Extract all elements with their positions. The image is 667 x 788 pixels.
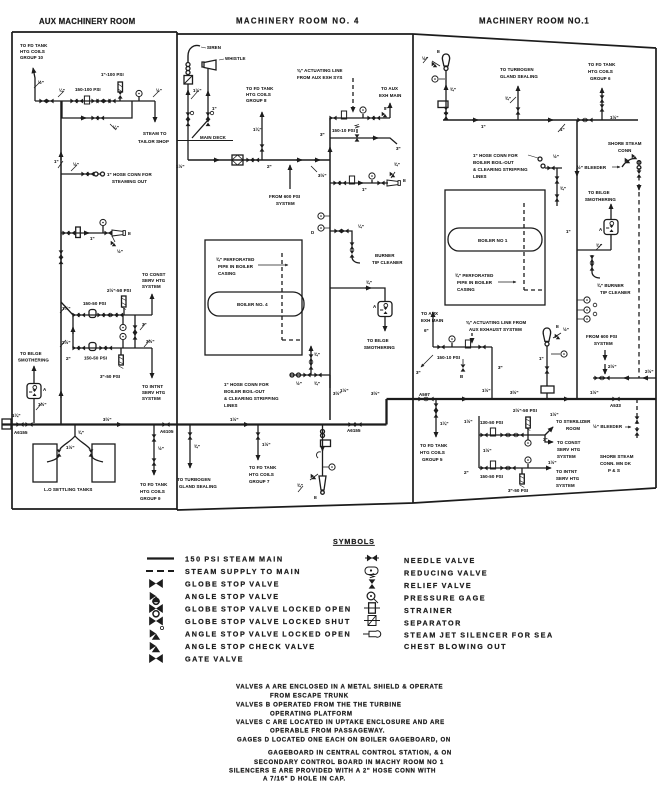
svg-text:GLAND SEALING: GLAND SEALING [500, 74, 538, 79]
reducing header 2 y=348 [73, 347, 152, 349]
svg-text:CASING: CASING [457, 287, 475, 292]
relief valve hatched below [119, 348, 124, 369]
svg-text:2": 2" [267, 164, 272, 169]
svg-text:VALVES B OPERATED FROM THE THE: VALVES B OPERATED FROM THE THE TURBINE [236, 702, 402, 709]
hose conn circles [94, 172, 98, 176]
svg-text:1½": 1½" [262, 442, 271, 447]
svg-text:BOILER BOIL-OUT: BOILER BOIL-OUT [473, 160, 514, 165]
svg-text:¾": ¾" [314, 381, 320, 386]
pressure gage below [120, 315, 126, 331]
valve [152, 434, 157, 441]
globe valve [246, 158, 253, 163]
strainer [465, 340, 470, 348]
globe valve [478, 345, 485, 350]
arrow on main [243, 424, 249, 426]
svg-text:CONN: CONN [618, 148, 631, 153]
svg-text:SYSTEM: SYSTEM [594, 341, 613, 346]
svg-text:BURNER: BURNER [375, 253, 395, 258]
svg-text:1½": 1½" [66, 445, 75, 450]
arrows on header [213, 159, 219, 161]
leader arrow [498, 281, 516, 283]
svg-text:150-10 PSI: 150-10 PSI [332, 128, 355, 133]
column down [556, 168, 558, 206]
svg-text:GLAND SEALING: GLAND SEALING [179, 484, 217, 489]
svg-text:1": 1" [539, 356, 544, 361]
600psi arrows [604, 350, 606, 360]
pipe: step up [385, 399, 387, 425]
pipe: box to main [33, 399, 35, 424]
boiler no.1 shell [448, 228, 542, 251]
hose conn header y=375 [290, 375, 330, 388]
tick on header [558, 124, 565, 132]
pressure gage [323, 464, 336, 470]
globe valve [500, 433, 507, 438]
svg-text:GROUP 9: GROUP 9 [140, 496, 161, 501]
pressure gage [432, 76, 445, 82]
angle valve [310, 474, 318, 480]
svg-text:TO CONST: TO CONST [142, 272, 166, 277]
bottom strip of left+middle panels [2, 399, 656, 501]
svg-text:B: B [460, 374, 463, 379]
pipe: 150-10 station header [433, 346, 492, 348]
svg-text:SILENCERS E ARE PROVIDED WITH: SILENCERS E ARE PROVIDED WITH A 2" HOSE … [229, 768, 436, 775]
gate valve [16, 422, 23, 427]
globe valve [508, 466, 515, 471]
svg-text:AUX EXHAUST SYSTEM: AUX EXHAUST SYSTEM [469, 327, 522, 332]
valve box A [27, 384, 41, 399]
svg-text:HTG COILS: HTG COILS [588, 69, 613, 74]
pipe: riser x=330 [329, 118, 331, 420]
svg-text:SYSTEM: SYSTEM [556, 483, 575, 488]
svg-text:BOILER NO 1: BOILER NO 1 [478, 238, 508, 243]
svg-text:2": 2" [464, 470, 469, 475]
from 600 psi arrow [289, 165, 291, 189]
globe valve pair [62, 231, 69, 236]
legend: angle stop check valve [150, 642, 160, 652]
pipe: drop x=492 [491, 347, 493, 399]
arrows up column [445, 85, 447, 90]
svg-text:TO INTNT: TO INTNT [556, 469, 577, 474]
svg-text:TO FD TANK: TO FD TANK [249, 465, 277, 470]
strainer on header [232, 155, 243, 165]
svg-text:A6155: A6155 [14, 430, 28, 435]
svg-text:1½": 1½" [550, 412, 559, 417]
pipe: main header y=120 [443, 119, 638, 121]
strainer [349, 176, 354, 184]
valve [555, 194, 560, 201]
tick [510, 97, 516, 103]
arrow [358, 182, 363, 184]
svg-text:3½": 3½" [318, 173, 327, 178]
svg-text:2½"-50 PSI: 2½"-50 PSI [107, 288, 131, 293]
arrow [365, 287, 371, 289]
svg-text:OPERATING PLATFORM: OPERATING PLATFORM [270, 711, 353, 718]
svg-text:SYSTEM: SYSTEM [557, 454, 576, 459]
gate valve A533 [612, 397, 619, 402]
pipe: separator branch y=183 [330, 182, 388, 184]
pipe: 150 psi steam main (right run) [387, 398, 657, 400]
svg-text:¾": ¾" [394, 162, 400, 167]
svg-text:REDUCING VALVE: REDUCING VALVE [404, 569, 488, 578]
pipe: 150-10 psi station header [330, 117, 390, 119]
silencer E stack mid panel [322, 425, 324, 477]
legend: needle valve [365, 555, 379, 562]
svg-text:½": ½" [38, 80, 44, 85]
svg-text:HTG COILS: HTG COILS [420, 450, 445, 455]
svg-text:1½": 1½" [230, 417, 239, 422]
arrow up [310, 346, 312, 352]
svg-text:1" HOSE CONN FOR: 1" HOSE CONN FOR [473, 153, 518, 158]
angle valve at silencer [432, 61, 440, 67]
svg-text:TO TURBOGEN: TO TURBOGEN [177, 477, 211, 482]
drop turbogen [189, 425, 191, 469]
gate valve A6105 [162, 422, 169, 427]
svg-text:1¼": 1¼" [12, 413, 21, 418]
svg-text:HTG COILS: HTG COILS [246, 92, 271, 97]
drop group 9 [153, 425, 155, 476]
border: aux machinery room panel [12, 32, 177, 509]
siren pipe [188, 45, 200, 62]
shore steam angle valves [622, 154, 637, 167]
svg-text:A6155: A6155 [347, 428, 361, 433]
svg-text:TO FD TANK: TO FD TANK [420, 443, 448, 448]
svg-text:MAIN DECK: MAIN DECK [200, 135, 227, 140]
valve pair on link [133, 325, 138, 332]
hose conn circles [290, 373, 294, 377]
svg-text:1": 1" [362, 187, 367, 192]
svg-text:& CLEARING STRIPPING: & CLEARING STRIPPING [224, 396, 279, 401]
svg-text:ANGLE STOP VALVE LOCKED OPEN: ANGLE STOP VALVE LOCKED OPEN [185, 630, 351, 639]
svg-text:1": 1" [90, 236, 95, 241]
svg-text:STEAMING OUT: STEAMING OUT [112, 179, 147, 184]
burner tip cleaner branch [330, 231, 352, 248]
pipe: box A to header y=250 [577, 235, 611, 250]
svg-text:FROM 600 PSI: FROM 600 PSI [269, 194, 300, 199]
arrow on main [116, 424, 122, 426]
pipe: steaming out branch [61, 173, 82, 175]
arrow down to bilge [384, 317, 386, 331]
svg-text:TO BILGE: TO BILGE [20, 351, 42, 356]
L.O. settling tank 2 [92, 444, 115, 482]
globe valve [333, 181, 340, 186]
legend: gate valve [149, 654, 163, 663]
tick [311, 166, 317, 172]
svg-text:TO TURBOGEN: TO TURBOGEN [500, 67, 534, 72]
legend: strainer [364, 603, 380, 613]
angle valve at E2 [553, 333, 561, 339]
svg-text:½": ½" [563, 327, 569, 332]
D gages [318, 213, 330, 231]
svg-text:GATE VALVE: GATE VALVE [185, 655, 244, 664]
svg-text:150-50 PSI: 150-50 PSI [84, 356, 107, 361]
svg-text:3½": 3½" [371, 391, 380, 396]
svg-text:1": 1" [54, 159, 59, 164]
svg-text:SYMBOLS: SYMBOLS [333, 537, 375, 546]
svg-text:1"-100 PSI: 1"-100 PSI [101, 72, 124, 77]
strainer [490, 428, 495, 436]
svg-text:A: A [599, 227, 603, 232]
svg-text:STEAM SUPPLY TO MAIN: STEAM SUPPLY TO MAIN [185, 567, 301, 576]
svg-text:GAGEBOARD IN CENTRAL CONTROL S: GAGEBOARD IN CENTRAL CONTROL STATION, & … [268, 750, 452, 757]
svg-text:L.O SETTLING TANKS: L.O SETTLING TANKS [44, 487, 92, 492]
valve below shore conn [637, 161, 641, 165]
arrow up to bilge [610, 204, 612, 219]
pipe: E2 column [546, 346, 548, 386]
pipe: main riser x=61 [60, 101, 62, 424]
border: machinery room no.1 panel [413, 34, 656, 503]
boiler no.4 shell [208, 292, 304, 316]
drop to intnt serv [151, 348, 153, 378]
separator rect [541, 386, 554, 393]
hose conn header [545, 167, 562, 169]
valve to tank 2 [89, 449, 94, 456]
svg-text:GLOBE STOP VALVE: GLOBE STOP VALVE [185, 580, 280, 589]
svg-text:MACHINERY ROOM NO.1: MACHINERY ROOM NO.1 [479, 17, 590, 26]
valve pair on riser [59, 250, 64, 257]
svg-text:FROM ESCAPE TRUNK: FROM ESCAPE TRUNK [270, 693, 349, 700]
svg-text:GAGES D LOCATED ONE EACH ON BO: GAGES D LOCATED ONE EACH ON BOILER GAGEB… [237, 737, 451, 744]
relief valve hatched [122, 296, 127, 315]
svg-text:TO STERILIZER: TO STERILIZER [556, 419, 591, 424]
svg-text:2½": 2½" [608, 364, 617, 369]
pressure gage [136, 90, 142, 101]
svg-text:¾": ¾" [450, 87, 456, 92]
pipe: station2 header y=468 [479, 467, 545, 469]
lo tank feed [60, 425, 90, 450]
svg-text:½": ½" [553, 154, 559, 159]
svg-text:¾": ¾" [314, 352, 320, 357]
pressure gage above [525, 457, 531, 468]
reducing header 1 y=315 [73, 314, 152, 316]
svg-text:⅜" ACTUATING LINE FROM: ⅜" ACTUATING LINE FROM [466, 320, 527, 325]
globe valve [303, 373, 310, 378]
svg-text:STRAINER: STRAINER [404, 606, 453, 615]
angle valve vent [390, 172, 396, 178]
svg-text:P & S: P & S [608, 468, 620, 473]
svg-text:⅜" ACTUATING LINE: ⅜" ACTUATING LINE [297, 68, 343, 73]
svg-text:E: E [314, 495, 317, 500]
globe valves [99, 346, 106, 351]
svg-text:150-10 PSI: 150-10 PSI [437, 355, 460, 360]
deck line [177, 140, 233, 142]
svg-text:EXH MAIN: EXH MAIN [379, 93, 401, 98]
pipe: station1 header y=435 [479, 434, 545, 436]
pipe: group 8 riser [261, 112, 263, 160]
svg-text:A: A [43, 387, 47, 392]
valve [188, 432, 193, 439]
gate valve [25, 422, 32, 427]
svg-text:½": ½" [117, 249, 123, 254]
valve box A right [604, 220, 618, 235]
svg-text:1": 1" [566, 229, 571, 234]
svg-text:½" BLEEDER: ½" BLEEDER [577, 165, 607, 170]
svg-text:HTG COILS: HTG COILS [20, 49, 45, 54]
leader to whistle [219, 59, 224, 60]
leader arrow bleeder [612, 166, 620, 168]
svg-text:1" HOSE CONN FOR: 1" HOSE CONN FOR [107, 172, 152, 177]
arrow up bilge [33, 366, 35, 383]
elbow valve [329, 116, 336, 121]
svg-text:TO FD TANK: TO FD TANK [588, 62, 616, 67]
pipes into tanks [47, 456, 103, 462]
burner tip cleaner column right [592, 255, 600, 278]
separator rect [321, 440, 331, 447]
svg-text:3"-50 PSI: 3"-50 PSI [100, 374, 120, 379]
gate valve pair A6155 near step [348, 422, 355, 427]
arrows [624, 377, 630, 379]
svg-text:CHEST BLOWING OUT: CHEST BLOWING OUT [404, 642, 507, 651]
svg-text:3": 3" [320, 132, 325, 137]
svg-text:SIREN: SIREN [207, 45, 221, 50]
silencer cone [319, 476, 326, 494]
svg-text:TO BILGE: TO BILGE [367, 338, 389, 343]
drop group 5 [435, 399, 437, 437]
globe valve [508, 433, 515, 438]
svg-text:GROUP 5: GROUP 5 [422, 457, 443, 462]
legend: steam supply to main sample [146, 570, 174, 572]
globe valve [104, 231, 111, 236]
pipe: riser to group 10 [33, 68, 35, 101]
pipe: bypass loop [62, 101, 132, 118]
valves [590, 255, 595, 262]
valve to tank 1 [57, 449, 62, 456]
pipe: whistle column [192, 68, 208, 138]
svg-text:¾": ¾" [366, 280, 372, 285]
svg-text:D: D [311, 230, 314, 235]
svg-text:3½": 3½" [510, 390, 519, 395]
globe valve [91, 99, 98, 104]
svg-text:SHORE STEAM: SHORE STEAM [600, 454, 634, 459]
svg-text:1½": 1½" [548, 460, 557, 465]
svg-text:SECONDARY CONTROL BOARD IN MAC: SECONDARY CONTROL BOARD IN MACHY ROOM NO… [254, 759, 444, 766]
svg-text:1" HOSE CONN FOR: 1" HOSE CONN FOR [224, 382, 269, 387]
arrow up riser [329, 147, 331, 153]
valve on group8 riser [260, 144, 265, 151]
svg-text:LINES: LINES [473, 174, 487, 179]
svg-text:TO FD TANK: TO FD TANK [246, 86, 274, 91]
arrows on right main [461, 398, 467, 400]
svg-text:SERV HTG: SERV HTG [142, 390, 166, 395]
globe valve [480, 433, 487, 438]
legend: angle stop valve [150, 592, 160, 602]
svg-text:3": 3" [498, 365, 503, 370]
pipe: to aux exh main riser [389, 103, 391, 118]
globe valves [97, 313, 104, 318]
flange rings [321, 430, 325, 434]
small gage dots [593, 303, 597, 307]
dashed perforated pipe [524, 203, 543, 290]
diagonal to 3" [421, 355, 433, 367]
svg-text:1½": 1½" [590, 390, 599, 395]
globe valve pair [72, 346, 79, 351]
separator E [112, 230, 125, 236]
svg-text:¼": ¼" [358, 224, 364, 229]
svg-text:GROUP 7: GROUP 7 [249, 479, 270, 484]
strainer [84, 96, 89, 104]
legend: pressure gage [367, 592, 378, 603]
arrow up on riser [60, 152, 62, 160]
svg-text:1½": 1½" [176, 164, 185, 169]
svg-text:RELIEF VALVE: RELIEF VALVE [404, 581, 472, 590]
svg-text:SERV HTG: SERV HTG [556, 476, 580, 481]
valve box A [378, 302, 392, 317]
angle valve on siren column [186, 112, 191, 119]
tick [596, 244, 602, 250]
relief valve V [118, 82, 123, 101]
reducer box with X [184, 76, 193, 85]
pressure gage [360, 107, 366, 118]
separator [387, 180, 400, 186]
svg-text:FROM 600 PSI: FROM 600 PSI [586, 334, 617, 339]
svg-text:½": ½" [158, 446, 164, 451]
pipe: drop to tailor shop [154, 101, 156, 122]
relief valve on header [355, 124, 360, 141]
A597 valve pair [418, 397, 425, 402]
valve pair [444, 107, 449, 114]
svg-text:TO CONST: TO CONST [557, 440, 581, 445]
globe valve [516, 433, 523, 438]
legend: separator [364, 616, 380, 626]
svg-text:½": ½" [296, 381, 302, 386]
svg-text:A6105: A6105 [160, 429, 174, 434]
arrow on relief header [372, 137, 378, 139]
svg-text:MACHINERY ROOM NO. 4: MACHINERY ROOM NO. 4 [236, 17, 360, 26]
svg-text:1": 1" [481, 124, 486, 129]
svg-text:TO FD TANK: TO FD TANK [20, 43, 48, 48]
hose conn column [310, 347, 312, 375]
svg-text:CONN. MN DK: CONN. MN DK [600, 461, 632, 466]
svg-text:A: A [373, 304, 377, 309]
globe valve [367, 116, 374, 121]
svg-text:FROM AUX EXH SYS: FROM AUX EXH SYS [297, 75, 342, 80]
L.O. settling tank 1 [33, 444, 57, 482]
svg-text:GLOBE STOP VALVE LOCKED OPEN: GLOBE STOP VALVE LOCKED OPEN [185, 605, 352, 614]
shore conn box at left edge [2, 419, 11, 429]
globe valve [81, 172, 88, 177]
strainer [76, 227, 81, 238]
svg-text:A597: A597 [419, 392, 430, 397]
valve [152, 458, 157, 465]
svg-text:GROUP 8: GROUP 8 [246, 98, 267, 103]
globe valve [547, 166, 554, 171]
legend: globe stop valve locked shut [149, 611, 163, 626]
separator rect [438, 101, 448, 108]
svg-text:3"-50 PSI: 3"-50 PSI [508, 488, 528, 493]
svg-text:6": 6" [424, 328, 429, 333]
svg-text:SMOTHERING: SMOTHERING [364, 345, 395, 350]
boiler no.4 casing [205, 240, 302, 355]
svg-text:SYSTEM: SYSTEM [276, 201, 295, 206]
svg-text:2½"-50 PSI: 2½"-50 PSI [513, 408, 537, 413]
legend: globe stop valve locked open [149, 598, 163, 613]
svg-text:2½": 2½" [645, 369, 654, 374]
svg-text:¾" PERFORATED: ¾" PERFORATED [455, 273, 493, 278]
branch y=232 separator station [61, 232, 111, 234]
valve pair on header [577, 118, 584, 123]
svg-text:E: E [128, 231, 131, 236]
valve [256, 432, 261, 439]
dashed actuating line [352, 78, 354, 112]
svg-text:BOILER BOIL-OUT: BOILER BOIL-OUT [224, 389, 265, 394]
globe valve [377, 181, 384, 186]
valve [545, 366, 550, 373]
dashed actuating drop [471, 333, 473, 343]
arrow on header [472, 119, 478, 121]
svg-text:SERV HTG: SERV HTG [557, 447, 581, 452]
pressure gage below [525, 435, 531, 446]
svg-text:GLOBE STOP VALVE LOCKED SHUT: GLOBE STOP VALVE LOCKED SHUT [185, 617, 351, 626]
svg-text:8": 8" [384, 106, 389, 111]
